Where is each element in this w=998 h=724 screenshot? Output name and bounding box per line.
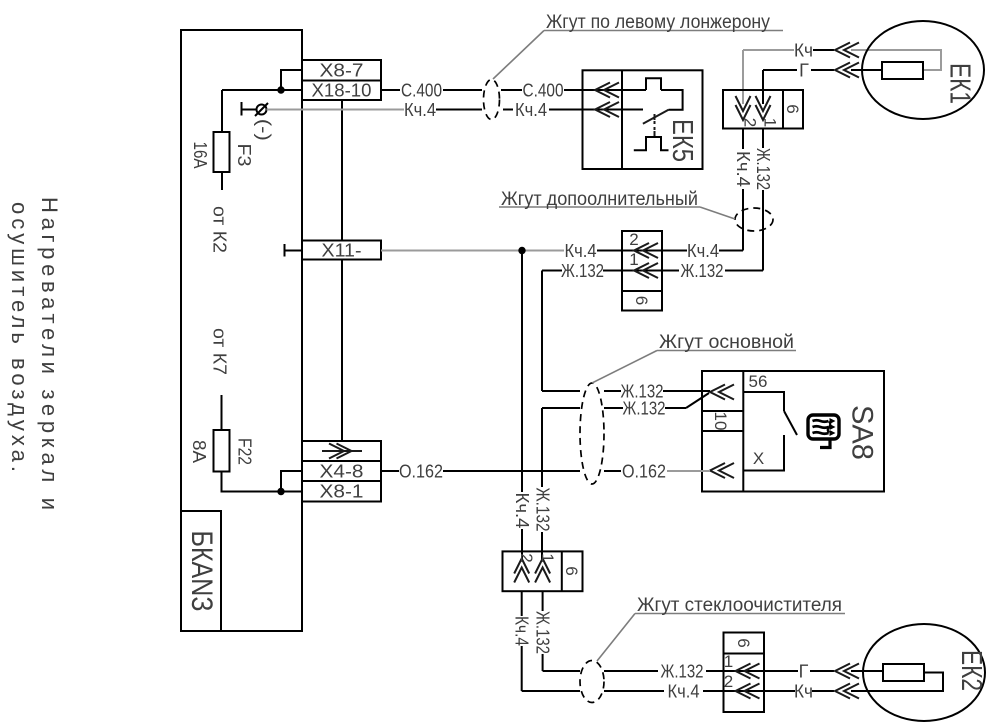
svg-text:Кч.4: Кч.4 <box>733 151 753 187</box>
svg-text:О.162: О.162 <box>622 462 666 482</box>
svg-text:Х8-1: Х8-1 <box>320 482 364 502</box>
svg-text:Кч: Кч <box>794 41 813 61</box>
svg-text:Кч.4: Кч.4 <box>687 241 719 261</box>
svg-text:1: 1 <box>538 553 557 562</box>
svg-text:1: 1 <box>724 652 733 671</box>
svg-text:Кч.4: Кч.4 <box>515 100 547 120</box>
svg-text:Кч.4: Кч.4 <box>512 493 532 529</box>
svg-text:SА8: SА8 <box>846 405 879 460</box>
svg-text:1: 1 <box>761 118 780 127</box>
svg-text:Кч.4: Кч.4 <box>404 100 436 120</box>
svg-text:ЕК2: ЕК2 <box>955 650 987 691</box>
svg-text:Жгут допоолнительный: Жгут допоолнительный <box>501 189 698 210</box>
svg-text:О.162: О.162 <box>399 462 443 482</box>
svg-text:6: 6 <box>734 638 753 647</box>
svg-text:6: 6 <box>783 104 802 113</box>
svg-text:X: X <box>753 449 764 468</box>
svg-text:2: 2 <box>741 118 760 127</box>
svg-text:Х18-10: Х18-10 <box>312 81 372 101</box>
svg-text:от К7: от К7 <box>210 328 230 375</box>
svg-text:(-): (-) <box>254 119 274 141</box>
svg-text:БКАNЗ: БКАNЗ <box>185 531 218 612</box>
svg-text:Жгут основной: Жгут основной <box>659 332 794 353</box>
svg-text:6: 6 <box>562 566 581 575</box>
svg-text:10: 10 <box>711 412 730 431</box>
svg-text:Ж.132: Ж.132 <box>533 611 553 654</box>
svg-text:Жгут стеклоочистителя: Жгут стеклоочистителя <box>637 595 842 616</box>
svg-text:6: 6 <box>632 296 651 305</box>
svg-text:56: 56 <box>749 372 768 391</box>
svg-text:2: 2 <box>724 672 733 691</box>
svg-text:от К2: от К2 <box>210 206 230 253</box>
svg-text:Х8-7: Х8-7 <box>320 61 364 81</box>
svg-text:Ж.132: Ж.132 <box>623 399 666 419</box>
svg-text:Ж.132: Ж.132 <box>561 261 604 281</box>
svg-text:Кч.4: Кч.4 <box>668 682 700 702</box>
svg-text:8А: 8А <box>189 440 209 463</box>
svg-text:F22: F22 <box>235 438 255 465</box>
svg-text:Ж.132: Ж.132 <box>661 662 704 682</box>
svg-text:ЕК5: ЕК5 <box>666 119 698 162</box>
svg-text:Кч.4: Кч.4 <box>512 616 532 646</box>
svg-text:ЕК1: ЕК1 <box>944 63 976 104</box>
svg-text:Ж.132: Ж.132 <box>533 488 553 532</box>
svg-text:Кч.4: Кч.4 <box>565 241 597 261</box>
svg-text:С.400: С.400 <box>523 81 564 101</box>
svg-text:Х4-8: Х4-8 <box>320 462 364 482</box>
svg-text:1: 1 <box>629 250 638 269</box>
svg-text:Жгут по левому лонжерону: Жгут по левому лонжерону <box>546 12 770 33</box>
svg-text:Ж.132: Ж.132 <box>681 261 724 281</box>
svg-text:Кч: Кч <box>794 682 813 702</box>
svg-text:Г: Г <box>799 662 809 682</box>
svg-text:Х11-: Х11- <box>322 241 362 261</box>
svg-text:С.400: С.400 <box>401 81 442 101</box>
svg-text:Г: Г <box>799 61 809 81</box>
svg-text:2: 2 <box>629 230 638 249</box>
svg-text:16А: 16А <box>190 142 210 169</box>
svg-text:2: 2 <box>517 553 536 562</box>
svg-text:Ж.132: Ж.132 <box>753 148 773 190</box>
svg-text:F3: F3 <box>234 144 254 167</box>
